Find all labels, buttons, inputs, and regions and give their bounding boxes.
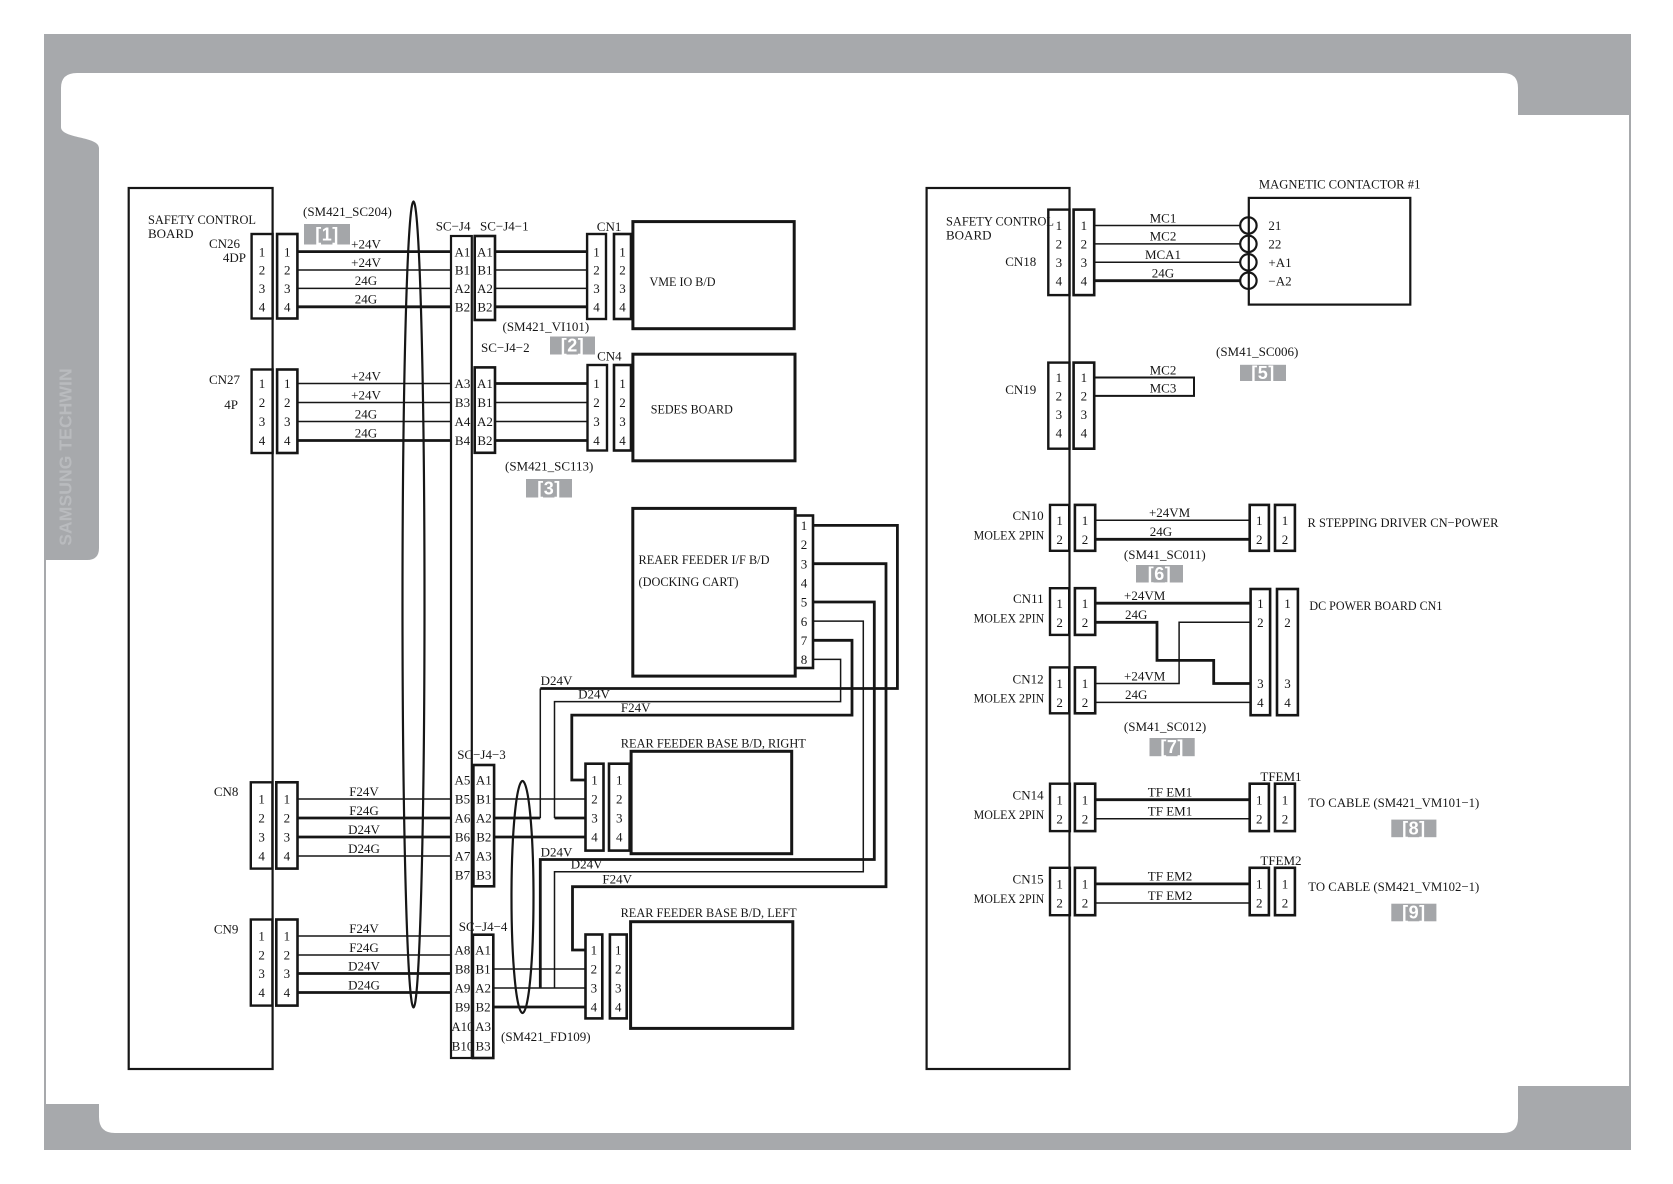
svg-text:24G: 24G <box>355 406 377 421</box>
svg-text:1: 1 <box>616 773 623 788</box>
svg-text:4: 4 <box>1081 273 1088 288</box>
svg-text:D24V: D24V <box>541 673 573 688</box>
svg-text:4: 4 <box>284 985 291 1000</box>
svg-text:2: 2 <box>1256 896 1263 911</box>
callout [2] <box>550 337 595 355</box>
connector SC-J4-4 <box>473 935 493 1058</box>
wire CN27-4 24G <box>297 439 451 442</box>
board: VME IO B/D <box>633 222 794 329</box>
svg-text:4: 4 <box>1284 695 1291 710</box>
connector TFEM2 (board side) <box>1275 868 1295 915</box>
svg-text:B1: B1 <box>477 395 492 410</box>
svg-text:[8]: [8] <box>1402 818 1426 838</box>
svg-text:4: 4 <box>1081 425 1088 440</box>
svg-text:CN14: CN14 <box>1013 788 1045 803</box>
svg-text:(DOCKING CART): (DOCKING CART) <box>639 574 739 589</box>
svg-text:+24V: +24V <box>351 236 381 251</box>
svg-text:B7: B7 <box>455 868 471 883</box>
svg-text:4: 4 <box>593 300 600 315</box>
svg-text:B2: B2 <box>455 300 470 315</box>
svg-text:D24G: D24G <box>348 977 380 992</box>
wire SC-J4-1 to CN1 row 3 <box>495 287 587 289</box>
connector CN4 (cable side) <box>588 365 608 451</box>
svg-text:2: 2 <box>1056 695 1063 710</box>
svg-text:[6]: [6] <box>1148 564 1172 584</box>
svg-text:3: 3 <box>593 414 600 429</box>
svg-text:REAR FEEDER BASE B/D, RIGHT: REAR FEEDER BASE B/D, RIGHT <box>621 736 806 751</box>
svg-text:2: 2 <box>1082 896 1089 911</box>
svg-text:B3: B3 <box>476 1039 491 1054</box>
svg-text:A1: A1 <box>477 244 493 259</box>
svg-text:3: 3 <box>619 414 626 429</box>
connector R stepping driver (board side) <box>1275 505 1295 551</box>
svg-text:1: 1 <box>1256 792 1263 807</box>
wire docking pin3 F24V to left board pin1 <box>573 564 887 950</box>
svg-text:2: 2 <box>258 811 265 826</box>
svg-text:24G: 24G <box>355 425 377 440</box>
svg-text:1: 1 <box>1282 877 1289 892</box>
connector CN19 (board side) <box>1048 363 1069 449</box>
svg-text:B5: B5 <box>455 792 470 807</box>
svg-text:1: 1 <box>1082 792 1089 807</box>
svg-text:24G: 24G <box>1152 266 1174 281</box>
svg-text:D24G: D24G <box>348 841 380 856</box>
svg-text:3: 3 <box>616 811 623 826</box>
svg-text:+24VM: +24VM <box>1124 588 1166 603</box>
svg-text:1: 1 <box>258 929 265 944</box>
svg-text:SC−J4−2: SC−J4−2 <box>481 340 530 355</box>
svg-text:[3]: [3] <box>537 478 561 498</box>
svg-text:MC2: MC2 <box>1150 362 1177 377</box>
wire CN14-1 TF EM1 <box>1095 798 1250 801</box>
svg-text:1: 1 <box>1082 877 1089 892</box>
svg-text:1: 1 <box>1284 596 1291 611</box>
wire CN14-2 TF EM1 <box>1095 818 1250 820</box>
svg-text:TFEM1: TFEM1 <box>1260 769 1301 784</box>
svg-text:TF EM2: TF EM2 <box>1148 888 1192 903</box>
svg-text:A7: A7 <box>455 849 471 864</box>
connector DC power board CN1 (cable side) <box>1251 589 1271 715</box>
svg-text:1: 1 <box>1056 676 1063 691</box>
svg-text:1: 1 <box>801 518 808 533</box>
svg-text:(SM421_SC113): (SM421_SC113) <box>505 459 593 474</box>
svg-text:1: 1 <box>1081 218 1088 233</box>
svg-text:1: 1 <box>619 376 626 391</box>
svg-text:1: 1 <box>284 792 291 807</box>
svg-text:2: 2 <box>801 537 808 552</box>
svg-text:1: 1 <box>593 244 600 259</box>
svg-text:A5: A5 <box>455 773 471 788</box>
svg-text:A1: A1 <box>476 773 492 788</box>
svg-text:D24V: D24V <box>348 958 380 973</box>
wire CN15-2 TF EM2 <box>1095 902 1250 904</box>
svg-text:MC3: MC3 <box>1150 381 1177 396</box>
svg-text:3: 3 <box>259 281 266 296</box>
svg-text:CN19: CN19 <box>1005 382 1036 397</box>
connector CN4 (board side) <box>614 365 631 451</box>
svg-text:(SM41_SC011): (SM41_SC011) <box>1124 547 1206 562</box>
svg-text:CN4: CN4 <box>597 349 622 364</box>
cable bundle ellipse (SC-J4 harness) <box>403 202 425 1008</box>
svg-text:2: 2 <box>284 395 291 410</box>
svg-text:3: 3 <box>1056 407 1063 422</box>
svg-text:24G: 24G <box>355 273 377 288</box>
connector SC-J4 (long strip) <box>451 236 472 1058</box>
svg-text:[7]: [7] <box>1160 737 1184 757</box>
svg-text:TF EM2: TF EM2 <box>1148 869 1192 884</box>
svg-text:1: 1 <box>1056 513 1063 528</box>
svg-text:R STEPPING DRIVER CN−POWER: R STEPPING DRIVER CN−POWER <box>1308 515 1499 530</box>
svg-text:A1: A1 <box>455 244 471 259</box>
svg-text:[5]: [5] <box>1251 363 1275 383</box>
svg-text:4: 4 <box>258 849 265 864</box>
svg-text:B2: B2 <box>477 433 492 448</box>
connector docking cart 8-pin <box>795 516 813 669</box>
terminal circle −A2 <box>1240 273 1256 289</box>
svg-text:4: 4 <box>591 830 598 845</box>
svg-text:1: 1 <box>1081 370 1088 385</box>
connector TFEM1 (cable side) <box>1250 784 1269 831</box>
wire CN15-1 TF EM2 <box>1095 883 1250 886</box>
wire CN12-1 +24VM to DC pin2 (staircase) <box>1095 622 1250 683</box>
wire CN9-3 D24V <box>298 972 452 975</box>
svg-text:2: 2 <box>591 962 598 977</box>
svg-text:CN10: CN10 <box>1013 508 1044 523</box>
wire CN8-4 D24G <box>298 855 452 857</box>
svg-text:(SM421_VI101): (SM421_VI101) <box>503 319 590 334</box>
svg-text:TF EM1: TF EM1 <box>1148 785 1192 800</box>
svg-text:B6: B6 <box>455 830 471 845</box>
connector CN27 (board side) <box>252 370 273 454</box>
svg-text:B9: B9 <box>455 1000 470 1015</box>
svg-text:3: 3 <box>1284 676 1291 691</box>
wire CN9-1 F24V <box>298 935 452 937</box>
svg-text:A2: A2 <box>476 811 492 826</box>
svg-text:1: 1 <box>1056 792 1063 807</box>
svg-text:CN1: CN1 <box>597 219 622 234</box>
wire CN18-1 MC1 <box>1094 225 1240 227</box>
svg-text:4: 4 <box>1056 273 1063 288</box>
wire B5/B1 F24V to right board pin2 <box>494 798 585 800</box>
svg-text:2: 2 <box>1056 812 1063 827</box>
svg-text:4: 4 <box>1056 425 1063 440</box>
terminal circle +A1 <box>1240 254 1256 270</box>
connector CN26 (cable side) <box>277 234 297 319</box>
svg-text:3: 3 <box>284 281 291 296</box>
svg-text:[1]: [1] <box>315 224 339 244</box>
svg-text:3: 3 <box>591 981 598 996</box>
wire CN27-1 +24V <box>297 383 451 385</box>
svg-text:1: 1 <box>1056 596 1063 611</box>
svg-text:1: 1 <box>615 943 622 958</box>
connector TFEM1 (board side) <box>1275 784 1295 831</box>
svg-text:B3: B3 <box>476 868 491 883</box>
svg-text:DC POWER BOARD CN1: DC POWER BOARD CN1 <box>1309 598 1442 613</box>
svg-text:24G: 24G <box>1125 687 1147 702</box>
svg-text:SC−J4−3: SC−J4−3 <box>457 747 506 762</box>
connector CN11 (board side) <box>1050 588 1069 635</box>
svg-text:F24V: F24V <box>349 784 379 799</box>
svg-text:VME IO B/D: VME IO B/D <box>650 274 716 289</box>
svg-text:(SM41_SC006): (SM41_SC006) <box>1216 344 1298 359</box>
svg-text:2: 2 <box>259 263 266 278</box>
svg-text:2: 2 <box>1256 812 1263 827</box>
connector CN27 (cable side) <box>277 370 297 454</box>
connector CN1 (board side) <box>614 234 631 319</box>
svg-text:A9: A9 <box>455 981 471 996</box>
svg-text:2: 2 <box>1257 615 1264 630</box>
svg-text:3: 3 <box>801 556 808 571</box>
svg-text:B1: B1 <box>476 962 491 977</box>
wire CN18-4 24G <box>1094 279 1240 282</box>
svg-text:+24V: +24V <box>351 387 381 402</box>
svg-text:MOLEX 2PIN: MOLEX 2PIN <box>974 691 1045 706</box>
svg-text:(SM41_SC012): (SM41_SC012) <box>1124 719 1206 734</box>
connector DC power board CN1 (board side) <box>1277 589 1298 715</box>
svg-text:1: 1 <box>1056 370 1063 385</box>
svg-text:1: 1 <box>1257 596 1264 611</box>
connector CN26 (board side) <box>252 234 273 319</box>
svg-text:MCA1: MCA1 <box>1145 247 1181 262</box>
svg-text:1: 1 <box>259 376 266 391</box>
svg-text:2: 2 <box>619 263 626 278</box>
connector CN15 (cable side) <box>1075 868 1095 915</box>
svg-text:2: 2 <box>591 792 598 807</box>
svg-text:4: 4 <box>1257 695 1264 710</box>
svg-text:F24V: F24V <box>349 921 379 936</box>
svg-text:3: 3 <box>258 966 265 981</box>
svg-text:1: 1 <box>591 943 598 958</box>
svg-text:1: 1 <box>1082 513 1089 528</box>
svg-text:A3: A3 <box>455 376 471 391</box>
svg-text:D24V: D24V <box>578 687 610 702</box>
wire CN9-2 F24G <box>298 954 452 956</box>
svg-text:4: 4 <box>615 1000 622 1015</box>
svg-text:+24VM: +24VM <box>1124 668 1166 683</box>
svg-text:2: 2 <box>1282 896 1289 911</box>
wire B8/B1 F24G to left board pin2 <box>493 968 585 970</box>
connector CN18 (cable side) <box>1074 210 1095 296</box>
svg-text:SC−J4: SC−J4 <box>436 219 471 234</box>
svg-text:D24V: D24V <box>571 857 603 872</box>
connector CN14 (board side) <box>1050 784 1070 831</box>
board: SAFETY CONTROL BOARD (left) <box>129 188 273 1069</box>
wire CN8-2 F24G <box>298 817 452 820</box>
component: MAGNETIC CONTACTOR #1 box <box>1249 198 1411 305</box>
svg-text:4: 4 <box>619 300 626 315</box>
svg-text:3: 3 <box>593 281 600 296</box>
svg-text:+A1: +A1 <box>1268 255 1291 270</box>
svg-text:2: 2 <box>1056 389 1063 404</box>
svg-text:4: 4 <box>284 300 291 315</box>
wire CN11-2 24G to DC pin3 (staircase) <box>1095 622 1250 683</box>
svg-text:B10: B10 <box>452 1039 474 1054</box>
svg-text:CN15: CN15 <box>1013 872 1044 887</box>
svg-text:2: 2 <box>1081 237 1088 252</box>
svg-text:2: 2 <box>1082 615 1089 630</box>
callout [9] <box>1391 904 1436 922</box>
svg-text:3: 3 <box>284 830 291 845</box>
svg-text:1: 1 <box>619 244 626 259</box>
svg-text:CN18: CN18 <box>1005 254 1036 269</box>
wire CN27-3 24G <box>297 421 451 423</box>
svg-text:F24G: F24G <box>349 803 379 818</box>
svg-text:4: 4 <box>258 985 265 1000</box>
callout [6] <box>1136 565 1183 583</box>
svg-text:4: 4 <box>616 830 623 845</box>
connector CN9 (cable side) <box>276 920 297 1006</box>
svg-text:BOARD: BOARD <box>946 228 992 243</box>
connector CN10 (board side) <box>1050 505 1069 551</box>
svg-text:B2: B2 <box>477 300 492 315</box>
svg-text:3: 3 <box>1081 407 1088 422</box>
wire SC-J4-2 to CN4 row 3 <box>495 421 587 423</box>
svg-text:3: 3 <box>284 414 291 429</box>
wire SC-J4-1 to CN1 row 4 <box>495 305 587 308</box>
svg-text:2: 2 <box>259 395 266 410</box>
wire SC-J4-2 to CN4 row 2 <box>495 402 587 404</box>
svg-text:D24V: D24V <box>348 822 380 837</box>
svg-text:F24V: F24V <box>621 700 651 715</box>
terminal circle 22 <box>1240 236 1256 252</box>
svg-text:4: 4 <box>801 576 808 591</box>
svg-text:4: 4 <box>591 1000 598 1015</box>
connector SC-J4-2 <box>475 367 495 452</box>
board: REAER FEEDER I/F B/D (DOCKING CART) <box>633 508 795 676</box>
svg-text:2: 2 <box>619 395 626 410</box>
svg-text:2: 2 <box>616 792 623 807</box>
svg-text:7: 7 <box>801 633 808 648</box>
wire D24V vertical drop to A6 row junction <box>539 689 541 819</box>
svg-text:B8: B8 <box>455 962 470 977</box>
connector right board (board side) <box>609 764 630 851</box>
svg-text:+24VM: +24VM <box>1149 505 1191 520</box>
svg-text:B1: B1 <box>477 263 492 278</box>
svg-text:+24V: +24V <box>351 255 381 270</box>
wire CN10-2 24G <box>1095 538 1250 541</box>
svg-text:TF EM1: TF EM1 <box>1148 804 1192 819</box>
connector left board (cable side) <box>586 935 603 1019</box>
svg-text:2: 2 <box>1282 532 1289 547</box>
svg-text:3: 3 <box>284 966 291 981</box>
wire CN26-1 +24V <box>297 250 451 253</box>
svg-text:F24G: F24G <box>349 940 379 955</box>
svg-text:1: 1 <box>593 376 600 391</box>
svg-text:1: 1 <box>1056 218 1063 233</box>
svg-text:2: 2 <box>284 263 291 278</box>
wire CN11-1 +24VM to DC pin1 <box>1095 602 1250 605</box>
svg-text:CN12: CN12 <box>1013 671 1044 686</box>
svg-text:1: 1 <box>259 244 266 259</box>
svg-text:A1: A1 <box>475 943 491 958</box>
wire SC-J4-2 to CN4 row 4 <box>495 439 587 442</box>
svg-text:1: 1 <box>1056 877 1063 892</box>
terminal circle 21 <box>1240 217 1256 233</box>
svg-text:2: 2 <box>1082 695 1089 710</box>
connector right board (cable side) <box>586 764 604 851</box>
svg-text:[2]: [2] <box>561 336 585 356</box>
svg-text:1: 1 <box>1256 877 1263 892</box>
svg-text:SAFETY CONTROL: SAFETY CONTROL <box>946 214 1054 229</box>
svg-text:A2: A2 <box>455 281 471 296</box>
svg-text:1: 1 <box>284 244 291 259</box>
connector CN18 (board side) <box>1048 210 1069 296</box>
svg-text:A6: A6 <box>455 811 471 826</box>
svg-text:(SM421_FD109): (SM421_FD109) <box>501 1029 591 1044</box>
svg-text:CN27: CN27 <box>209 372 241 387</box>
svg-text:A8: A8 <box>455 943 471 958</box>
wire CN26-4 24G <box>297 305 451 308</box>
svg-text:1: 1 <box>284 376 291 391</box>
wire CN12-2 24G to DC pin4 <box>1095 701 1250 703</box>
connector CN11 (cable side) <box>1075 588 1095 635</box>
svg-text:24G: 24G <box>355 292 377 307</box>
svg-text:2: 2 <box>1282 812 1289 827</box>
svg-text:A2: A2 <box>477 414 493 429</box>
wire docking pin8 D24V to right board pin3 (vertical) <box>555 659 841 818</box>
wire SC-J4-1 to CN1 row 1 <box>495 250 587 253</box>
svg-text:2: 2 <box>1082 812 1089 827</box>
svg-text:4: 4 <box>259 433 266 448</box>
svg-text:1: 1 <box>1282 792 1289 807</box>
svg-text:3: 3 <box>1056 255 1063 270</box>
connector CN8 (cable side) <box>276 782 297 868</box>
connector left board (board side) <box>610 935 627 1019</box>
wire docking pin6 D24V to A9 row junction <box>555 621 864 988</box>
wire CN27-2 +24V <box>297 402 451 404</box>
svg-text:2: 2 <box>284 948 291 963</box>
wire SC-J4-1 to CN1 row 2 <box>495 269 587 271</box>
svg-text:1: 1 <box>1256 513 1263 528</box>
svg-text:4DP: 4DP <box>223 250 246 265</box>
board: REAR FEEDER BASE B/D LEFT <box>631 922 793 1029</box>
svg-text:2: 2 <box>1082 532 1089 547</box>
svg-text:REAER FEEDER I/F B/D: REAER FEEDER I/F B/D <box>639 552 770 567</box>
svg-text:MOLEX 2PIN: MOLEX 2PIN <box>974 527 1045 542</box>
svg-text:REAR FEEDER BASE B/D, LEFT: REAR FEEDER BASE B/D, LEFT <box>621 905 797 920</box>
svg-text:2: 2 <box>1056 532 1063 547</box>
svg-text:MOLEX 2PIN: MOLEX 2PIN <box>974 891 1045 906</box>
wire docking pin7 F24V to right board pin1 <box>572 640 852 780</box>
svg-text:MAGNETIC CONTACTOR #1: MAGNETIC CONTACTOR #1 <box>1259 177 1421 192</box>
svg-text:B1: B1 <box>455 263 470 278</box>
svg-text:4: 4 <box>619 433 626 448</box>
svg-text:A10: A10 <box>451 1019 473 1034</box>
svg-text:1: 1 <box>1082 676 1089 691</box>
svg-text:3: 3 <box>258 830 265 845</box>
svg-text:22: 22 <box>1268 237 1281 252</box>
connector R stepping driver (cable side) <box>1250 505 1269 551</box>
wire SC-J4-2 to CN4 row 1 <box>495 382 587 385</box>
svg-text:F24V: F24V <box>602 872 632 887</box>
wire D24V into right board pin3 <box>555 817 586 820</box>
wire B6/B2 D24V to right board pin4 <box>494 836 585 839</box>
connector CN15 (board side) <box>1050 868 1070 915</box>
callout [1] <box>304 224 350 245</box>
svg-text:3: 3 <box>1081 255 1088 270</box>
svg-text:4: 4 <box>284 433 291 448</box>
board: REAR FEEDER BASE B/D RIGHT <box>631 751 792 853</box>
svg-text:1: 1 <box>591 773 598 788</box>
svg-text:4: 4 <box>259 300 266 315</box>
svg-text:[9]: [9] <box>1402 903 1426 923</box>
connector CN10 (cable side) <box>1075 505 1095 551</box>
svg-text:A1: A1 <box>477 376 493 391</box>
svg-text:1: 1 <box>258 792 265 807</box>
svg-text:2: 2 <box>284 811 291 826</box>
svg-text:2: 2 <box>1256 532 1263 547</box>
svg-text:TO CABLE (SM421_VM102−1): TO CABLE (SM421_VM102−1) <box>1308 879 1479 894</box>
